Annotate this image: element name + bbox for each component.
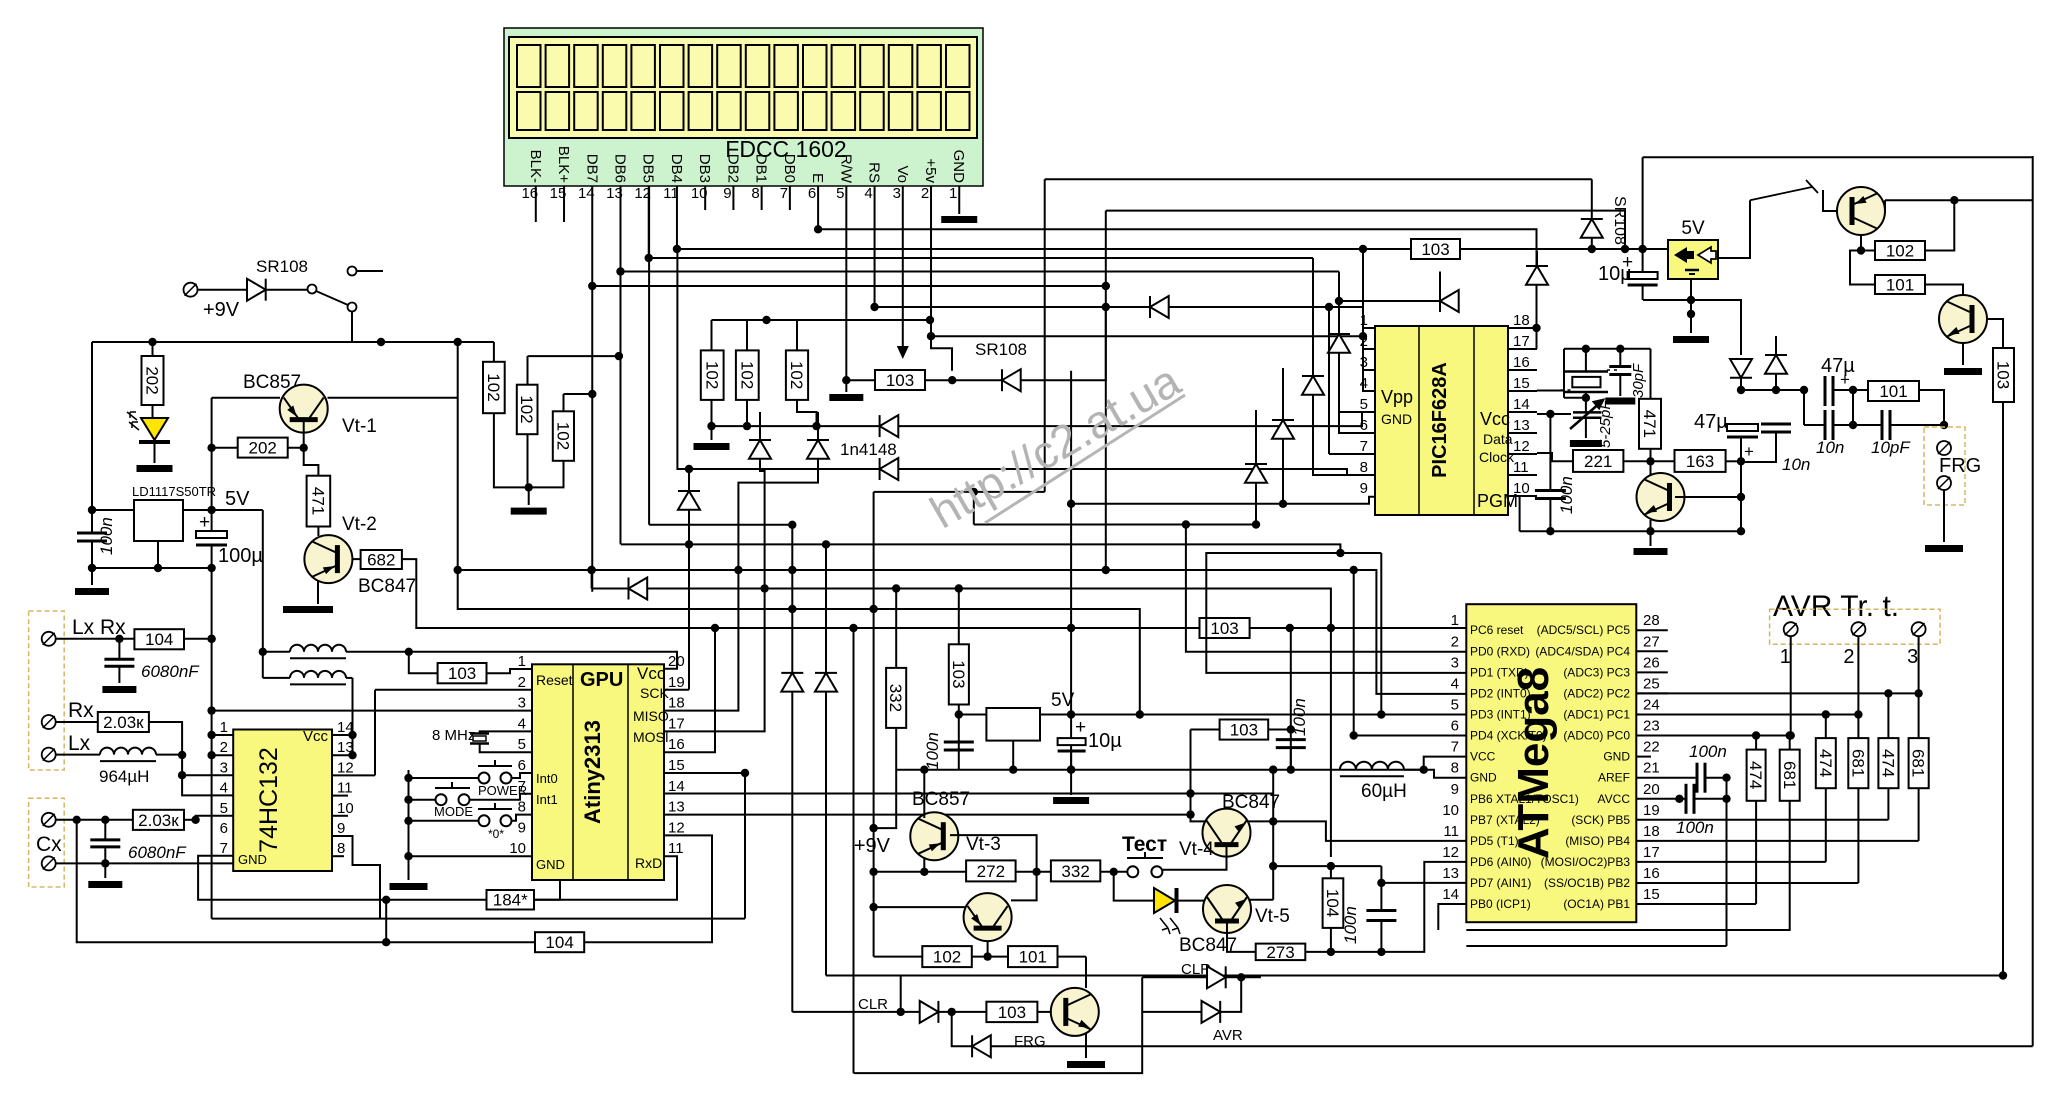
wire +9V col to Q9 left bbox=[874, 906, 966, 908]
svg-text:+9V: +9V bbox=[854, 835, 891, 857]
svg-text:5: 5 bbox=[1360, 396, 1368, 413]
wire PIC right pin 10 stub bbox=[1508, 495, 1537, 497]
wire to trimmer bbox=[1585, 398, 1587, 413]
svg-text:DB4: DB4 bbox=[668, 154, 685, 183]
junction 104 row bbox=[382, 938, 390, 946]
capacitor 10n a bbox=[1761, 424, 1791, 432]
svg-text:102: 102 bbox=[1886, 241, 1914, 260]
wire to resistor 202a bbox=[152, 342, 154, 356]
wire 47u b to 101b bbox=[1833, 389, 1868, 391]
svg-text:Vt-5: Vt-5 bbox=[1255, 906, 1290, 927]
wire diode col a top bbox=[791, 525, 793, 673]
svg-text:102: 102 bbox=[737, 361, 756, 389]
capacitor 100n d bbox=[1366, 911, 1396, 921]
wire DB6 long drop bbox=[619, 272, 621, 545]
wire CLR vert link bbox=[900, 976, 902, 1012]
wire FRG row long bbox=[991, 1045, 2033, 1047]
svg-text:26: 26 bbox=[1643, 654, 1660, 671]
wire PIC right pin 11 stub bbox=[1508, 474, 1537, 476]
wire Vt3 collector up bbox=[923, 770, 925, 818]
ground input bbox=[75, 588, 109, 595]
wire diode f left bbox=[1339, 300, 1440, 302]
wire reg b gnd bbox=[1012, 741, 1014, 770]
wire diode col a down bbox=[791, 692, 793, 1012]
junction row524/col1256 bbox=[1252, 520, 1260, 528]
svg-text:Vcc: Vcc bbox=[303, 728, 329, 745]
wire 103e to Vt4 col bbox=[1190, 730, 1192, 794]
resistor 471 bbox=[307, 476, 331, 527]
wire col 1381 to pin5 row bbox=[1380, 553, 1382, 715]
diode 1n4148 g bbox=[629, 578, 648, 600]
junction Vt4 emitter bbox=[1269, 817, 1277, 825]
junction DB5 bus bbox=[645, 254, 653, 262]
svg-text:964µH: 964µH bbox=[99, 767, 149, 786]
junction 5V output bbox=[207, 506, 215, 514]
wire Atiny pin14 row east bbox=[664, 793, 1273, 795]
svg-text:6080nF: 6080nF bbox=[128, 843, 187, 862]
junction 100nc bbox=[1269, 766, 1277, 774]
wire vert 10n bbox=[1852, 390, 1854, 425]
svg-text:PD1 (TXD): PD1 (TXD) bbox=[1470, 665, 1529, 679]
capacitor 100n f bbox=[1686, 784, 1694, 814]
svg-text:RS: RS bbox=[866, 162, 883, 183]
wire left rail down bbox=[91, 342, 93, 533]
wire to GND pin8 bbox=[1424, 770, 1467, 778]
diode SR108 mid bbox=[1002, 369, 1021, 391]
resistor 101 c bbox=[1008, 946, 1058, 967]
svg-text:BC857: BC857 bbox=[912, 789, 970, 810]
svg-text:SCK: SCK bbox=[640, 685, 669, 701]
junction +9V at 609 bbox=[869, 605, 877, 613]
svg-text:682: 682 bbox=[367, 550, 395, 569]
wire coil1 right bbox=[346, 651, 409, 653]
junction 47u row c bbox=[1800, 386, 1808, 394]
svg-text:16: 16 bbox=[1513, 354, 1530, 371]
junction +5v/PIC vertical bbox=[1359, 332, 1367, 340]
resistor 102 d bbox=[701, 350, 724, 400]
wire coil to pin8 bbox=[1404, 769, 1424, 771]
svg-text:6080nF: 6080nF bbox=[141, 662, 200, 681]
svg-text:102: 102 bbox=[484, 373, 503, 401]
LCD character cells bbox=[517, 45, 970, 130]
wire diode d to PIC pin8 bbox=[898, 469, 1375, 475]
junction 103e/col1290 bbox=[1287, 725, 1295, 733]
wire AVR up bbox=[1220, 977, 1241, 1012]
svg-text:8: 8 bbox=[1451, 760, 1459, 777]
resistor 272 bbox=[966, 860, 1016, 881]
wire row 570 DB7 to ATMega pin6 bbox=[458, 570, 1467, 736]
wire switch2 blade bbox=[1750, 187, 1812, 200]
wire diode a down bbox=[1740, 378, 1742, 390]
wire DB7 bus right bbox=[592, 285, 1106, 287]
junction Q5/rail bbox=[1646, 527, 1654, 535]
svg-text:BC847: BC847 bbox=[358, 576, 416, 597]
junction 103FRG bbox=[1999, 971, 2007, 979]
svg-text:Lx: Lx bbox=[68, 732, 91, 755]
resistor 102 b bbox=[517, 385, 538, 435]
wire 10u to reg bbox=[1643, 299, 1691, 301]
wire cap to rail bbox=[1549, 499, 1551, 532]
junction gnd row a bbox=[1067, 766, 1075, 774]
junction pin13 row end bbox=[1186, 810, 1194, 818]
svg-text:PB7 (XTAL2): PB7 (XTAL2) bbox=[1470, 813, 1540, 827]
capacitor 6080nF b bbox=[90, 840, 120, 847]
arrow Vo into resistor 103 bbox=[897, 346, 909, 359]
svg-text:101: 101 bbox=[1886, 275, 1914, 294]
diode CLR b bbox=[1207, 966, 1226, 988]
wire PIC right pin 15 stub bbox=[1508, 390, 1537, 392]
svg-text:15: 15 bbox=[1513, 375, 1530, 392]
wire Lx to coil bbox=[56, 754, 100, 756]
svg-text:681: 681 bbox=[1780, 761, 1799, 789]
junction Cx left bbox=[73, 816, 81, 824]
junction button rail c bbox=[404, 817, 412, 825]
junction PD7 bbox=[1377, 879, 1385, 887]
wire diode to switch bbox=[266, 289, 308, 291]
junction row570/col1353 bbox=[1350, 566, 1358, 574]
junction 102 cluster gnd bbox=[525, 483, 533, 491]
wire to ground Q5 bbox=[1650, 531, 1652, 546]
svg-text:2: 2 bbox=[220, 739, 228, 756]
svg-text:3: 3 bbox=[1907, 646, 1918, 668]
svg-text:2.03к: 2.03к bbox=[103, 713, 144, 732]
transistor Q7 bbox=[1939, 295, 1987, 343]
svg-text:11: 11 bbox=[668, 840, 684, 857]
junction col/Q9 row bbox=[869, 903, 877, 911]
wire 74HC pin13 bbox=[332, 754, 353, 756]
wire 184 to 104 row bbox=[385, 900, 387, 942]
wire 332v top bbox=[895, 589, 897, 668]
wire pin18 row bbox=[1636, 840, 1918, 842]
resistor 184* bbox=[487, 890, 535, 910]
junction term1 bbox=[1787, 731, 1795, 739]
wire Q8 emitter bbox=[1085, 1033, 1087, 1058]
wire diode b down to MOSI col bbox=[760, 459, 765, 589]
wire reg to gnd bbox=[1690, 314, 1692, 333]
wire Vt-2 emitter to ground bbox=[317, 581, 319, 604]
resistor 474 a bbox=[1746, 750, 1765, 801]
svg-text:100n: 100n bbox=[1557, 476, 1576, 514]
svg-text:14: 14 bbox=[1442, 886, 1459, 903]
svg-text:R/W: R/W bbox=[837, 154, 854, 184]
junction row570/MISO col bbox=[734, 566, 742, 574]
watermark line bbox=[985, 395, 1185, 523]
resistor 104 a bbox=[134, 629, 184, 649]
wire 10ub down bbox=[1070, 751, 1072, 795]
inductor L2 bbox=[290, 671, 346, 685]
wire trimmer bottom bbox=[1585, 418, 1587, 438]
svg-text:14: 14 bbox=[668, 778, 685, 795]
junction col689/row544 bbox=[685, 540, 693, 548]
diode at PIC pin8 bbox=[1272, 420, 1294, 439]
junction row525/col792 bbox=[788, 521, 796, 529]
junction 30pF top bbox=[1616, 345, 1624, 353]
resistor 102 f bbox=[786, 350, 808, 400]
wire PIC right pin 16 stub bbox=[1508, 369, 1537, 371]
wire 202b right bbox=[288, 447, 304, 449]
svg-text:Vcc: Vcc bbox=[1480, 409, 1510, 429]
wire CLR b right bbox=[1226, 976, 1261, 978]
crystal quartz bbox=[1561, 370, 1619, 392]
wire 332v bottom to +9V col bbox=[874, 728, 897, 828]
svg-text:(ADC1) PC1: (ADC1) PC1 bbox=[1563, 707, 1630, 721]
wire to FRG diode bbox=[952, 1012, 972, 1046]
svg-text:13: 13 bbox=[1442, 865, 1459, 882]
capacitor 47µ b bbox=[1825, 376, 1833, 406]
junction pin5 bbox=[191, 816, 199, 824]
resistor 2.03k a bbox=[98, 712, 149, 732]
wire 102c bottom bbox=[529, 461, 564, 488]
svg-text:103: 103 bbox=[448, 664, 476, 683]
transistor Q9 bbox=[964, 893, 1012, 941]
junction reg out bbox=[1687, 296, 1695, 304]
junction col1353/pin6 bbox=[1350, 731, 1358, 739]
wire 10n a down bbox=[1741, 432, 1776, 462]
junction Q6 emitter bbox=[1857, 246, 1865, 254]
wire switch upper stub bbox=[357, 270, 383, 272]
svg-text:DB1: DB1 bbox=[753, 154, 770, 183]
junction Vt3 emitter bbox=[920, 868, 928, 876]
connector box LxRx bbox=[29, 611, 65, 770]
junction reg out2 bbox=[1687, 310, 1695, 318]
transistor Q6 bbox=[1837, 187, 1885, 235]
wire to Q6 base bbox=[1823, 190, 1837, 211]
svg-text:12: 12 bbox=[1442, 844, 1459, 861]
wire PIC pin8 bbox=[1313, 394, 1375, 475]
svg-text:PC6 reset: PC6 reset bbox=[1470, 623, 1524, 637]
wire to PD7 bbox=[1381, 882, 1466, 884]
svg-text:DB5: DB5 bbox=[640, 154, 657, 183]
wire reg to diode pair bbox=[1691, 300, 1741, 355]
wire crystal top lead bbox=[1585, 349, 1587, 372]
svg-text:4: 4 bbox=[864, 185, 872, 202]
wire FRG to ground bbox=[1943, 490, 1945, 542]
resistor 104 c bbox=[1323, 878, 1344, 928]
wire 102d bottom bbox=[711, 400, 713, 426]
svg-text:18: 18 bbox=[668, 695, 685, 712]
terminal Lx Rx bbox=[42, 632, 56, 646]
wire Vt-1 base down bbox=[303, 422, 305, 448]
wire +9V col to 102h bbox=[874, 956, 923, 958]
junction 681a bbox=[1786, 731, 1794, 739]
wire 474b top lead bbox=[1825, 715, 1827, 739]
capacitor 100n input bbox=[77, 517, 116, 555]
junction cap 100u gnd bbox=[207, 564, 215, 572]
svg-text:60µH: 60µH bbox=[1361, 781, 1407, 802]
ground R/W bbox=[829, 394, 863, 401]
svg-text:12: 12 bbox=[1513, 438, 1530, 455]
svg-text:13: 13 bbox=[1513, 417, 1530, 434]
diode 1n4148 f bbox=[1440, 290, 1459, 312]
wire +9V to diode bbox=[197, 289, 247, 291]
wire DB4 drop and bus 469 bbox=[677, 249, 879, 469]
wire LED to ground bbox=[154, 443, 156, 463]
svg-text:PD0 (RXD): PD0 (RXD) bbox=[1470, 644, 1530, 658]
svg-text:10: 10 bbox=[509, 840, 526, 857]
capacitor 100µ bbox=[196, 531, 227, 545]
wire POWER to Int0 bbox=[511, 773, 532, 778]
LCD yellow display area bbox=[509, 37, 977, 138]
wire Q7 emitter bbox=[1962, 343, 1964, 365]
wire Q7 to 103 bbox=[1987, 319, 2003, 348]
wire pin23 row bbox=[1636, 735, 1790, 737]
junction SR108c bbox=[1588, 245, 1596, 253]
svg-text:RxD: RxD bbox=[635, 855, 662, 871]
terminal +9V input bbox=[184, 283, 198, 297]
wire ATMega pin 24 stub bbox=[1636, 713, 1668, 715]
svg-text:14: 14 bbox=[1513, 396, 1530, 413]
svg-text:(MOSI/OC2)PB3: (MOSI/OC2)PB3 bbox=[1541, 855, 1631, 869]
wire DB4 bus right to 103 bbox=[677, 248, 1411, 250]
svg-text:10n: 10n bbox=[1782, 455, 1810, 474]
svg-text:PD3 (INT1): PD3 (INT1) bbox=[1470, 707, 1531, 721]
svg-text:27: 27 bbox=[1643, 633, 1660, 650]
wire Atiny pin4 to crystal bbox=[480, 731, 532, 733]
svg-text:E: E bbox=[809, 173, 826, 183]
ground Vt-2 bbox=[283, 606, 333, 613]
svg-text:Vt-3: Vt-3 bbox=[966, 834, 1001, 855]
wire +5v to 103 node bbox=[931, 336, 952, 371]
svg-text:6: 6 bbox=[220, 820, 228, 837]
wire PD5 to Vt4 emitter node bbox=[1273, 821, 1466, 841]
wire pin15 down bbox=[744, 773, 746, 919]
wire row 866 bbox=[1273, 865, 1381, 867]
FRG connector box bbox=[1924, 427, 1965, 505]
svg-text:PGM: PGM bbox=[1477, 491, 1518, 511]
svg-text:17: 17 bbox=[1513, 333, 1530, 350]
wire Vt4 collector left bbox=[1191, 794, 1206, 822]
svg-text:11: 11 bbox=[337, 780, 353, 797]
wire crystal bottom link bbox=[1564, 397, 1586, 399]
wire PIC right pin 13 stub bbox=[1508, 432, 1537, 434]
svg-text:15: 15 bbox=[668, 757, 685, 774]
svg-text:28: 28 bbox=[1643, 612, 1660, 629]
wire ATMega pin 28 stub bbox=[1636, 629, 1668, 631]
wire LCD pin2 +5v drop bbox=[930, 186, 932, 336]
svg-text:VCC: VCC bbox=[1470, 750, 1496, 764]
svg-text:5: 5 bbox=[836, 185, 844, 202]
junction 102e gnd bbox=[743, 422, 751, 430]
junction reset bus right bbox=[1286, 624, 1294, 632]
wire 184* to Atiny pin9 bbox=[532, 835, 560, 899]
wire to diode g bbox=[592, 588, 629, 590]
wire 102d row bbox=[712, 319, 931, 321]
wire vertical 1044 bbox=[1044, 179, 1046, 492]
junction 74HC pin2 bbox=[207, 751, 215, 759]
switch upper contact bbox=[348, 267, 357, 276]
wire 102g to 101a bbox=[1850, 251, 1875, 285]
junction col1106/row570 bbox=[1102, 566, 1110, 574]
svg-text:FRG: FRG bbox=[1014, 1033, 1046, 1050]
wire ATMega pin 23 stub bbox=[1636, 735, 1668, 737]
wire PIC right pin 12 stub bbox=[1508, 453, 1537, 455]
capacitor 47µ a bbox=[1727, 424, 1758, 437]
wire CLR row bbox=[792, 1011, 919, 1013]
diode SR108 c bbox=[1581, 219, 1603, 238]
junction row591/MOSI col bbox=[760, 584, 768, 592]
svg-text:Vo: Vo bbox=[894, 165, 911, 183]
wire PIC clock to 221 bbox=[1537, 453, 1573, 461]
wire 471 top bbox=[1650, 349, 1652, 399]
svg-text:Int1: Int1 bbox=[536, 792, 558, 807]
svg-text:PD7 (AIN1): PD7 (AIN1) bbox=[1470, 876, 1531, 890]
svg-text:AREF: AREF bbox=[1598, 771, 1630, 785]
wire ATMega pin22 stub bbox=[1636, 756, 1651, 758]
ground Q5 bbox=[1634, 548, 1668, 555]
diode at PIC pin5 bbox=[1328, 334, 1350, 353]
junction pin14 bbox=[348, 731, 356, 739]
junction DB7 bus bbox=[588, 282, 596, 290]
wire Cx to 2.03k b bbox=[56, 819, 133, 821]
wire row 492 bbox=[874, 491, 1045, 493]
resistor 682 bbox=[361, 550, 402, 569]
svg-text:8 MHz: 8 MHz bbox=[432, 727, 475, 744]
wire to 10n b bbox=[1804, 424, 1825, 426]
svg-text:7: 7 bbox=[1451, 739, 1459, 756]
wire 74HC pin12 bbox=[332, 774, 375, 776]
junction pin13 bbox=[348, 751, 356, 759]
svg-text:19: 19 bbox=[668, 674, 685, 691]
ground 10ub bbox=[1053, 797, 1089, 804]
diode 1n4148 i bbox=[815, 673, 837, 692]
resistor 681 c bbox=[1909, 738, 1929, 788]
svg-text:MISO: MISO bbox=[633, 708, 669, 724]
junction col1381/pin5 row bbox=[1377, 710, 1385, 718]
wire diode f stub bbox=[1439, 272, 1441, 291]
junction reset bus bbox=[1067, 624, 1075, 632]
svg-text:4: 4 bbox=[220, 780, 228, 797]
wire 104c top bbox=[1330, 866, 1332, 878]
junction CLR b bbox=[948, 1008, 956, 1016]
svg-text:104: 104 bbox=[145, 630, 173, 649]
svg-text:102: 102 bbox=[702, 361, 721, 389]
resistor 104 b bbox=[535, 932, 584, 952]
wire 681b bottom to pin16 bbox=[1857, 788, 1859, 883]
diode at pin18 bbox=[1526, 266, 1548, 285]
svg-text:GND: GND bbox=[536, 857, 565, 872]
wire LxRx to 104 bbox=[56, 638, 135, 640]
svg-text:Reset: Reset bbox=[536, 672, 573, 688]
junction reg b gnd bbox=[1009, 766, 1017, 774]
wire to Q5 collector bbox=[1650, 461, 1652, 475]
wire 10u bottom bbox=[1642, 285, 1644, 300]
junction gnd row b bbox=[1269, 766, 1277, 774]
svg-text:(ADC5/SCL) PC5: (ADC5/SCL) PC5 bbox=[1537, 623, 1631, 637]
wire Q8 collector up bbox=[1085, 957, 1087, 988]
wire SR108 up to RS node bbox=[1021, 306, 1106, 380]
diode 1n4148 h bbox=[781, 673, 803, 692]
junction 102 row bbox=[762, 316, 770, 324]
resistor 202 (LED) bbox=[142, 356, 164, 405]
svg-text:MOSI: MOSI bbox=[633, 729, 669, 745]
junction DB4/PIC vertical bbox=[1359, 245, 1367, 253]
svg-text:10n: 10n bbox=[1816, 438, 1844, 457]
wire to cap 6080 a bbox=[118, 639, 120, 660]
voltage regulator LD1117S50TR bbox=[134, 500, 183, 541]
wire pin15 row bbox=[1636, 903, 1756, 905]
wire long row 975 bbox=[826, 975, 2003, 977]
wire DB7 to diode row bbox=[591, 568, 593, 589]
wire to LED2 bbox=[1114, 872, 1154, 901]
wire crystal bottom lead bbox=[1585, 392, 1587, 398]
wire Atiny pin3 left bbox=[212, 710, 532, 712]
svg-text:(MISO) PB4: (MISO) PB4 bbox=[1565, 834, 1630, 848]
junction DB7/102c bbox=[588, 390, 596, 398]
junction cap b cross bbox=[101, 859, 109, 867]
wire 332b to button bbox=[1100, 871, 1127, 873]
svg-text:103: 103 bbox=[998, 1003, 1026, 1022]
wire CLR diode to 103 bbox=[938, 1011, 986, 1013]
